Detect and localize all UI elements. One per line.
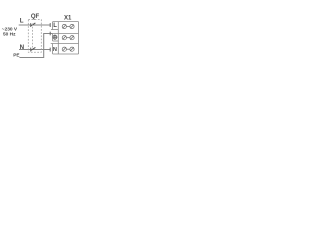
svg-text:L: L	[20, 17, 24, 24]
svg-text:PE: PE	[13, 52, 19, 57]
svg-text:50 Hz: 50 Hz	[3, 32, 16, 38]
svg-text:QF: QF	[31, 14, 40, 20]
svg-text:L: L	[53, 23, 57, 29]
svg-text:N: N	[53, 47, 57, 53]
svg-text:N: N	[20, 44, 25, 51]
svg-text:X1: X1	[64, 16, 72, 22]
